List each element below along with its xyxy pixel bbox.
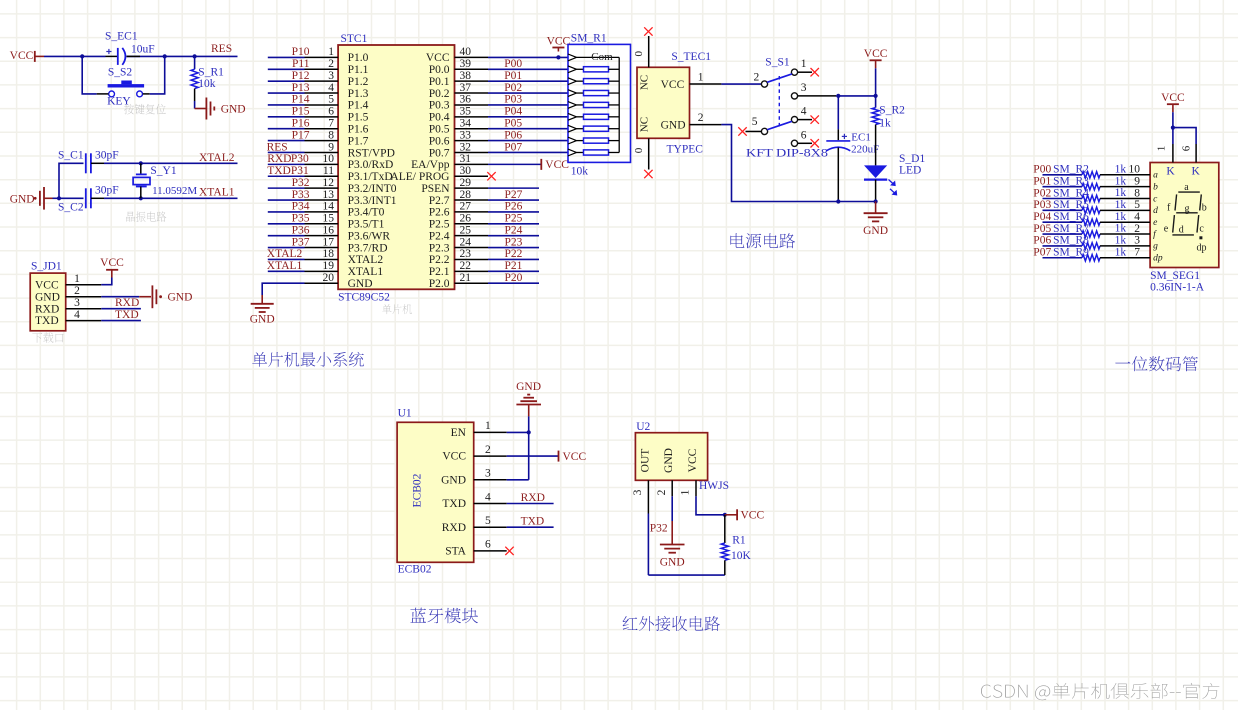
text mcu gray label — [382, 304, 412, 314]
svg-text:P15: P15 — [292, 106, 310, 118]
svg-text:GND: GND — [863, 225, 888, 237]
pin 6 (K) of SM_SEG1 — [1180, 144, 1200, 177]
svg-text:a: a — [1184, 182, 1189, 193]
svg-text:1: 1 — [801, 58, 807, 70]
wire P23 net — [488, 247, 539, 249]
svg-text:P0.7: P0.7 — [429, 147, 450, 159]
net label P06 (display) — [1033, 235, 1051, 247]
svg-text:1k: 1k — [879, 117, 891, 129]
wire VCC to display pins 1 and 6 — [1173, 112, 1196, 144]
svg-text:P03: P03 — [1033, 199, 1051, 211]
node display vcc junction — [1171, 126, 1175, 130]
svg-text:P1.2: P1.2 — [348, 76, 369, 88]
pin 40 (VCC) of STC1 — [426, 46, 488, 64]
svg-text:RXD: RXD — [442, 522, 466, 534]
svg-text:1k: 1k — [1115, 235, 1127, 247]
text download connector label — [32, 332, 63, 343]
node junction right of capacitor — [163, 54, 167, 58]
svg-text:VCC: VCC — [741, 510, 765, 522]
node junction at S_R1 — [193, 54, 197, 58]
port VCC (bluetooth) — [559, 451, 587, 463]
svg-text:P02: P02 — [504, 82, 522, 94]
svg-text:GND: GND — [660, 557, 685, 569]
pin 29 (PSEN) of STC1 — [421, 177, 488, 195]
pin 31 (EA/Vpp) of STC1 — [411, 153, 488, 171]
svg-text:P2.7: P2.7 — [429, 195, 450, 207]
text minimal system label — [252, 352, 364, 367]
svg-text:30: 30 — [460, 165, 472, 177]
pin 1 (EN) of U1 — [451, 420, 507, 439]
svg-text:GND: GND — [35, 291, 60, 303]
pin 3 (P1.2) of STC1 — [305, 70, 369, 88]
svg-text:18: 18 — [323, 248, 335, 260]
svg-text:c: c — [1199, 224, 1204, 235]
net label P05 — [504, 118, 522, 130]
wire P36 net — [268, 235, 305, 237]
svg-text:EA/Vpp: EA/Vpp — [411, 159, 450, 171]
pin 23 (P2.2) of STC1 — [429, 248, 488, 266]
svg-text:35: 35 — [460, 106, 472, 118]
pin 18 (XTAL2) of STC1 — [305, 248, 384, 266]
svg-text:P36: P36 — [292, 224, 310, 236]
connector S_TEC1 TYPEC body — [637, 51, 711, 156]
wire P03 to resistor SM_R5 — [1043, 209, 1083, 211]
svg-text:TXD: TXD — [35, 315, 59, 327]
svg-text:7: 7 — [1134, 247, 1140, 259]
svg-text:2: 2 — [698, 112, 704, 124]
svg-text:5: 5 — [1134, 199, 1140, 211]
wire pin20 to ground — [262, 283, 304, 304]
resistor SM_R2 1k — [1053, 163, 1150, 178]
resistor element 1 of SM_R1 — [568, 66, 619, 73]
node crystal bottom — [139, 196, 143, 200]
net label P21 — [505, 260, 523, 272]
pin 36 (P0.3) of STC1 — [429, 94, 488, 112]
svg-text:4: 4 — [74, 309, 80, 321]
pin 3 (GND) of U1 — [441, 468, 507, 487]
svg-text:P3.5/T1: P3.5/T1 — [348, 219, 385, 231]
svg-text:S_S1: S_S1 — [765, 56, 790, 68]
no connect S_S1 pin4 — [811, 115, 819, 123]
svg-text:8: 8 — [328, 129, 334, 141]
pin 30 (ALE/ PROG) of STC1 — [390, 165, 488, 183]
svg-text:XTAL2: XTAL2 — [348, 254, 384, 266]
svg-text:P1.6: P1.6 — [348, 124, 369, 136]
svg-text:b: b — [1202, 202, 1207, 213]
svg-text:10: 10 — [323, 153, 335, 165]
svg-text:25: 25 — [460, 224, 472, 236]
svg-text:21: 21 — [460, 272, 472, 284]
resistor element 7 of SM_R1 — [568, 137, 619, 144]
resistor SM_R5 1k — [1053, 199, 1150, 214]
svg-text:4: 4 — [1134, 211, 1140, 223]
pin 6 (STA) of U1 — [445, 539, 507, 558]
wire VCC to S_R2 — [875, 68, 877, 96]
module U1 ECB02 body — [397, 408, 474, 576]
svg-text:22: 22 — [460, 260, 472, 272]
svg-text:VCC: VCC — [687, 448, 699, 472]
wire P15 net — [268, 116, 305, 118]
svg-text:S_Y1: S_Y1 — [150, 165, 176, 177]
svg-text:P22: P22 — [505, 248, 523, 260]
svg-text:XTAL1: XTAL1 — [199, 187, 235, 199]
port VCC (reset circuit) — [10, 50, 44, 62]
svg-text:P1.4: P1.4 — [348, 100, 369, 112]
net label XTAL2 (mcu) — [267, 248, 303, 260]
svg-text:P2.0: P2.0 — [429, 278, 450, 290]
svg-text:VCC: VCC — [442, 451, 466, 463]
node U1 pin1 junction — [527, 430, 531, 434]
svg-text:e: e — [1153, 218, 1157, 228]
svg-text:SM_SEG1: SM_SEG1 — [1150, 270, 1200, 282]
net label P07 — [504, 141, 522, 153]
svg-text:P00: P00 — [504, 58, 522, 70]
svg-text:S_R1: S_R1 — [198, 67, 224, 79]
net label P00 — [504, 58, 522, 70]
pin 9 (b) of SM_SEG1 — [1134, 175, 1158, 192]
wire P25 net — [488, 223, 539, 225]
wire U1 RXD — [507, 526, 554, 528]
svg-text:0: 0 — [633, 51, 645, 57]
net label P12 — [292, 70, 310, 82]
resistor element 6 of SM_R1 — [568, 125, 619, 132]
pin 33 (P0.6) of STC1 — [429, 129, 488, 147]
resistor S_R2 1k — [872, 96, 905, 165]
wire P00 net — [488, 68, 568, 70]
svg-text:P32: P32 — [650, 523, 668, 535]
text ir section label — [623, 616, 720, 631]
svg-text:19: 19 — [323, 260, 335, 272]
text display section label — [1115, 356, 1198, 371]
wire SM_R1 common bus — [618, 57, 620, 152]
port VCC (power circuit) — [864, 48, 888, 68]
svg-text:9: 9 — [328, 141, 334, 153]
svg-text:10uF: 10uF — [131, 43, 155, 55]
net label P06 — [504, 129, 522, 141]
svg-text:P1.3: P1.3 — [348, 88, 369, 100]
pin 7 (dp) of SM_SEG1 — [1134, 247, 1163, 264]
pin 8 (c) of SM_SEG1 — [1134, 187, 1158, 204]
wire JD1 pin2 to GND — [101, 296, 139, 298]
svg-text:P03: P03 — [504, 94, 522, 106]
pin 19 (XTAL1) of STC1 — [305, 260, 384, 278]
node S_R2 top junction — [874, 94, 878, 98]
svg-text:U1: U1 — [398, 408, 412, 420]
svg-text:4: 4 — [328, 82, 334, 94]
pin 25 (P2.4) of STC1 — [429, 224, 488, 242]
ground (reset) power port — [195, 98, 246, 120]
pin 7 (P1.6) of STC1 — [305, 118, 369, 136]
wire PSEN stub — [488, 187, 539, 189]
LED S_D1 — [864, 153, 925, 202]
text bluetooth section label — [410, 608, 478, 624]
svg-text:PSEN: PSEN — [421, 183, 450, 195]
svg-text:GND: GND — [221, 104, 246, 116]
push button S_S2 KEY — [107, 67, 144, 108]
ground (download) power port — [139, 285, 192, 308]
svg-text:5: 5 — [485, 515, 491, 527]
svg-text:P34: P34 — [292, 201, 310, 213]
svg-text:0: 0 — [633, 147, 645, 153]
svg-text:P2.6: P2.6 — [429, 207, 450, 219]
svg-text:STC1: STC1 — [341, 33, 368, 45]
net label P03 (display) — [1033, 199, 1051, 211]
net label P01 — [504, 70, 522, 82]
svg-text:P01: P01 — [1033, 175, 1051, 187]
wire P10 net — [268, 56, 305, 58]
svg-text:HWJS: HWJS — [699, 480, 729, 492]
pin 28 (P2.7) of STC1 — [429, 189, 488, 207]
net label XTAL2 — [199, 152, 235, 164]
pin 5 (d) of SM_SEG1 — [1134, 199, 1158, 216]
wire P27 net — [488, 199, 539, 201]
pin 10 (P3.0/RxD) of STC1 — [305, 153, 394, 171]
svg-text:4: 4 — [485, 491, 491, 503]
net label P15 — [292, 106, 310, 118]
pin 4 (TXD) of U1 — [442, 491, 506, 510]
net label P14 — [292, 94, 310, 106]
svg-text:VCC: VCC — [35, 279, 59, 291]
net label P02 (display) — [1033, 187, 1051, 199]
svg-text:P30: P30 — [291, 153, 309, 165]
svg-text:P05: P05 — [504, 118, 522, 130]
pin 10 (a) of SM_SEG1 — [1129, 164, 1159, 181]
svg-text:P07: P07 — [504, 141, 522, 153]
net label RXD (download) — [115, 297, 139, 309]
node EC1 bottom junction — [836, 199, 840, 203]
capacitor S_EC1 10uF polarized — [105, 31, 155, 65]
wire P01 net — [488, 80, 568, 82]
net label TXD (bluetooth) — [521, 516, 545, 528]
net label TXD P31 — [267, 165, 309, 177]
svg-text:KEY: KEY — [107, 95, 131, 107]
capacitor S_C1 30pF — [58, 150, 119, 174]
svg-text:P20: P20 — [505, 272, 523, 284]
svg-text:P10: P10 — [292, 46, 310, 58]
net label P32 (ir) — [650, 523, 668, 535]
svg-text:VCC: VCC — [864, 48, 888, 60]
svg-text:S_TEC1: S_TEC1 — [671, 51, 711, 63]
svg-text:SM_R1: SM_R1 — [571, 33, 607, 45]
svg-text:6: 6 — [1180, 145, 1192, 151]
wire P24 net — [488, 235, 539, 237]
svg-text:1: 1 — [328, 46, 334, 58]
svg-text:P0.4: P0.4 — [429, 112, 450, 124]
svg-text:16: 16 — [323, 224, 335, 236]
svg-text:K: K — [1166, 165, 1175, 177]
svg-text:1k: 1k — [1115, 175, 1127, 187]
svg-text:NC: NC — [639, 117, 651, 132]
pin 9 (RST/VPD) of STC1 — [305, 141, 395, 159]
port VCC (ir) — [725, 509, 765, 521]
net label P04 — [504, 106, 522, 118]
wire U2 out net — [648, 514, 724, 576]
wire XTAL1 (mcu) — [268, 270, 305, 272]
svg-text:dp: dp — [1153, 254, 1163, 264]
svg-text:2: 2 — [1134, 223, 1140, 235]
svg-text:TXD: TXD — [521, 516, 545, 528]
no connect typec top — [644, 27, 652, 35]
pin 5 (RXD) of U1 — [442, 515, 507, 534]
net label RXD P30 — [267, 153, 309, 165]
svg-text:10k: 10k — [571, 166, 589, 178]
ground (power circuit) — [863, 202, 888, 237]
wire U2 vcc net — [696, 496, 725, 515]
svg-text:P25: P25 — [505, 213, 523, 225]
svg-text:S_EC1: S_EC1 — [105, 31, 138, 43]
pin 2 of S_S1 — [754, 71, 760, 83]
wire XTAL2 row — [104, 162, 238, 164]
svg-text:P04: P04 — [1033, 211, 1051, 223]
net label P17 — [292, 129, 310, 141]
wire P12 net — [268, 80, 305, 82]
svg-text:P02: P02 — [1033, 187, 1051, 199]
svg-text:34: 34 — [460, 118, 472, 130]
wire P21 net — [488, 270, 539, 272]
wire P01 to resistor SM_R3 — [1043, 186, 1083, 188]
wire P26 net — [488, 211, 539, 213]
node junction left — [80, 54, 84, 58]
display SM_SEG1 body — [1150, 163, 1219, 294]
svg-text:P0.1: P0.1 — [429, 76, 450, 88]
net label P36 — [292, 224, 310, 236]
svg-text:14: 14 — [323, 201, 335, 213]
pin 38 (P0.1) of STC1 — [429, 70, 488, 88]
wire P07 net — [488, 151, 568, 153]
svg-text:1: 1 — [680, 489, 692, 495]
svg-text:1: 1 — [74, 273, 80, 285]
net label P24 — [505, 224, 523, 236]
pin 1 (P1.0) of STC1 — [305, 46, 369, 64]
wire VCC to RES net — [44, 55, 238, 57]
svg-text:24: 24 — [460, 236, 472, 248]
svg-text:1k: 1k — [1115, 163, 1127, 175]
svg-text:b: b — [1153, 182, 1158, 192]
pin 6 of S_S1 — [798, 129, 812, 143]
svg-text:ECB02: ECB02 — [398, 564, 432, 576]
svg-text:GND: GND — [441, 474, 466, 486]
wire EA/Vpp to VCC — [488, 163, 541, 165]
svg-text:2: 2 — [754, 71, 760, 83]
no connect S_S1 pin1 — [811, 68, 819, 76]
wire P04 net — [488, 116, 568, 118]
svg-text:5: 5 — [752, 116, 758, 128]
svg-text:S_D1: S_D1 — [899, 153, 925, 165]
resistor R1 10K — [721, 515, 751, 575]
text watermark — [981, 683, 1219, 700]
svg-text:d: d — [1153, 206, 1158, 216]
svg-text:26: 26 — [460, 213, 472, 225]
pin 13 (P3.3/INT1) of STC1 — [305, 189, 397, 207]
svg-text:RST/VPD: RST/VPD — [348, 147, 395, 159]
net label P32 — [292, 177, 310, 189]
svg-text:S_R2: S_R2 — [879, 105, 905, 117]
net label P01 (display) — [1033, 175, 1051, 187]
net label P02 — [504, 82, 522, 94]
wire P17 net — [268, 140, 305, 142]
svg-text:P3.0/RxD: P3.0/RxD — [348, 159, 394, 171]
pin 5 of S_S1 — [746, 116, 762, 131]
resistor SM_R4 1k — [1053, 187, 1150, 202]
wire XTAL1 row — [104, 197, 238, 199]
svg-text:7: 7 — [328, 118, 334, 130]
svg-text:32: 32 — [460, 141, 472, 153]
svg-text:10K: 10K — [731, 550, 752, 562]
svg-text:P0.5: P0.5 — [429, 124, 450, 136]
svg-text:23: 23 — [460, 248, 472, 260]
wire P02 to resistor SM_R4 — [1043, 198, 1083, 200]
ground (ir) power port — [660, 521, 685, 569]
svg-text:31: 31 — [460, 153, 472, 165]
pin 17 (P3.7/RD) of STC1 — [305, 236, 388, 254]
wire U1 pin1/pin3 to gnd — [507, 416, 529, 479]
net label P05 (display) — [1033, 223, 1051, 235]
node pin40 junction — [556, 55, 560, 59]
no connect S_S1 pin5 — [738, 127, 746, 135]
resistor SM_R7 1k — [1053, 223, 1150, 238]
svg-text:15: 15 — [323, 213, 335, 225]
node junction caps — [57, 196, 61, 200]
svg-text:VCC: VCC — [661, 79, 685, 91]
svg-text:P3.6/WR: P3.6/WR — [348, 230, 391, 242]
pin 26 (P2.5) of STC1 — [429, 213, 488, 231]
pin 1 (VCC) of S_TEC1 — [639, 71, 722, 91]
wire P02 net — [488, 92, 568, 94]
pin 11 (P3.1/TxD) of STC1 — [305, 165, 393, 183]
pin 21 (P2.0) of STC1 — [429, 272, 488, 290]
wire P33 net — [268, 199, 305, 201]
resistor element 8 of SM_R1 — [568, 149, 619, 156]
svg-text:XTAL2: XTAL2 — [267, 248, 303, 260]
text reset section label — [124, 104, 166, 115]
svg-text:P0.3: P0.3 — [429, 100, 450, 112]
pin 2 (VCC) of U1 — [442, 444, 506, 463]
text power section label — [730, 233, 795, 248]
svg-text:P0.0: P0.0 — [429, 64, 450, 76]
pin 2 (GND) of U2 — [656, 480, 672, 496]
no connect U1 STA — [505, 547, 513, 555]
node EC1 top junction — [836, 94, 840, 98]
svg-text:1k: 1k — [1115, 211, 1127, 223]
svg-text:P3.3/INT1: P3.3/INT1 — [348, 195, 397, 207]
svg-text:d: d — [1179, 225, 1184, 236]
no connect pin30 — [487, 172, 495, 180]
svg-text:6: 6 — [485, 539, 491, 551]
wire P22 net — [488, 258, 539, 260]
net label P20 — [505, 272, 523, 284]
svg-text:1k: 1k — [1115, 246, 1127, 258]
resistor network SM_R1 10k body — [568, 33, 631, 178]
pin 1 (K) of SM_SEG1 — [1156, 144, 1176, 177]
pin 3 (g) of SM_SEG1 — [1134, 235, 1158, 252]
wire P05 to resistor SM_R7 — [1043, 233, 1083, 235]
wire P35 net — [268, 223, 305, 225]
svg-text:3: 3 — [1134, 235, 1140, 247]
pin 2 (f) of SM_SEG1 — [1134, 223, 1157, 240]
net label RES (mcu) — [267, 141, 288, 153]
wire JD1 pin3 RXD — [101, 308, 141, 310]
svg-text:VCC: VCC — [100, 257, 124, 269]
pin 22 (P2.1) of STC1 — [429, 260, 488, 278]
net label P13 — [292, 82, 310, 94]
svg-text:NC: NC — [639, 75, 651, 90]
pin 1 (VCC) of U2 — [680, 480, 696, 496]
wire RXD/P30 net — [268, 163, 305, 165]
svg-text:P2.1: P2.1 — [429, 266, 450, 278]
port VCC (display) — [1161, 92, 1185, 112]
svg-text:P26: P26 — [505, 201, 523, 213]
wire P13 net — [268, 92, 305, 94]
